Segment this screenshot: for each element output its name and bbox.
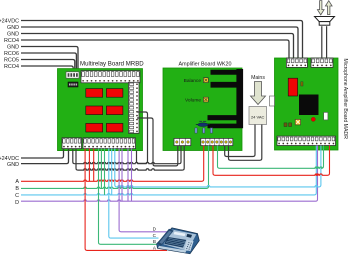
wire RCO6 to MRBD [21, 53, 76, 72]
wire green2 down [104, 149, 106, 195]
svg-text:B: B [15, 186, 19, 192]
wire speaker left [321, 26, 323, 58]
wire A to intercom [85, 149, 167, 251]
svg-text:GND: GND [7, 31, 19, 37]
wire cyan jumper to MABR [115, 146, 321, 187]
svg-text:Multirelay Board MRBD: Multirelay Board MRBD [80, 60, 144, 67]
wire GND MRBD to WK20 T1b [76, 146, 184, 171]
inductor L1 [196, 121, 210, 127]
capacitors C1 C2 C3 [195, 128, 197, 133]
Multirelay Board MRBD [58, 69, 143, 151]
svg-text:RCO5: RCO5 [4, 57, 19, 63]
connector J5 MRBD bottom left [62, 138, 82, 149]
connector J6 MRBD bottom main [83, 138, 136, 149]
wire red2 to bus A [93, 149, 95, 182]
wire GND to MABR [21, 27, 298, 58]
wire C to intercom [109, 149, 159, 239]
bus B (green) [21, 146, 209, 189]
svg-text:Microphone Amplifier Board MAD: Microphone Amplifier Board MADR [342, 59, 348, 140]
wire purple J7b to bus D [131, 149, 133, 202]
relay K4 [106, 106, 123, 115]
connector J1 MRBD control input [66, 72, 79, 78]
relay K6 [106, 123, 123, 132]
connector P3 MABR side [270, 96, 275, 106]
relay RL1 MABR [288, 78, 297, 96]
svg-text:D: D [15, 200, 19, 206]
wire speaker right [326, 26, 328, 58]
wire MRBD J4 to WK20 T1 [137, 118, 178, 166]
connector P1 MABR top left [286, 58, 307, 67]
connector J3 MRBD top header [81, 71, 140, 83]
svg-text:RCO4: RCO4 [4, 64, 19, 70]
transformer 24 VAC [249, 107, 267, 125]
arrow up (audio in) [325, 1, 332, 15]
svg-text:+24VDC: +24VDC [0, 18, 19, 24]
relay K1 [86, 89, 103, 98]
bus D (purple) [21, 146, 318, 202]
svg-text:Balance: Balance [184, 78, 202, 84]
intercom station [157, 228, 200, 254]
speaker LS1 [315, 17, 335, 26]
connector J4 MRBD right header [129, 82, 140, 133]
wire D to intercom [119, 149, 171, 232]
wire GND MRBD to WK20 T1a [73, 146, 181, 164]
relay K5 [86, 123, 103, 132]
wire RCO5 to MRBD [21, 60, 75, 73]
svg-text:Amplifier Board WK20: Amplifier Board WK20 [178, 61, 231, 67]
connector T1 WK20 bottom left [174, 138, 191, 145]
relay K2 [106, 89, 123, 98]
Amplifier Board WK20 [163, 68, 242, 151]
transformer TR1 MABR [299, 95, 319, 116]
connector P2 MABR top right [311, 58, 333, 67]
wire RCO4 to MABR [21, 40, 289, 58]
connector T2 WK20 bottom right [201, 138, 233, 145]
svg-text:RCO6: RCO6 [4, 51, 19, 57]
svg-text:GND: GND [7, 44, 19, 50]
svg-text:GND: GND [7, 162, 19, 168]
svg-text:B: B [153, 239, 156, 244]
arrow down (audio out) [317, 1, 324, 15]
wire GND to MRBD J5 [21, 149, 69, 164]
wire GND2 to MABR [21, 34, 294, 59]
wire MRBD J4 loop [137, 112, 148, 163]
wire purple J7a to bus D [127, 149, 129, 202]
wire red to bus A [88, 149, 90, 182]
bus C (cyan) [21, 146, 316, 195]
wire green audio to MABR [218, 146, 324, 169]
mains arrow [251, 82, 266, 105]
relay K3 [86, 106, 103, 115]
wire green to bus B [100, 149, 102, 189]
wire cyan to bus C [111, 149, 113, 195]
svg-text:GND: GND [7, 25, 19, 31]
connector J2 MRBD aux (dark) [68, 82, 78, 87]
Microphone Amplifier Board MADR [275, 58, 339, 150]
trimmer MABR [295, 119, 300, 125]
svg-text:RCO4: RCO4 [4, 38, 19, 44]
wire RCO4b to MRBD [21, 66, 73, 72]
svg-text:Volume: Volume [185, 97, 201, 103]
svg-text:24 VAC: 24 VAC [251, 114, 265, 119]
svg-text:Mains: Mains [251, 75, 265, 81]
svg-text:C: C [15, 193, 19, 199]
connector P4 MABR bottom [277, 136, 336, 145]
wire red audio to MABR [213, 146, 330, 176]
wire 24VAC to WK20 T2a [225, 125, 255, 157]
wire B to intercom [99, 149, 159, 245]
wire purple to bus D [121, 149, 123, 202]
LED D1 [311, 117, 315, 121]
svg-text:A: A [15, 179, 19, 185]
wire +24VDC to MABR [21, 21, 303, 59]
wire GND to MRBD [21, 47, 78, 73]
wire +24VDC to MRBD J5 [21, 149, 64, 159]
heatsink [208, 69, 244, 128]
capacitor MABR [324, 112, 328, 120]
wire 24VAC to WK20 T2b [229, 125, 262, 161]
bus A (red) [21, 146, 204, 182]
